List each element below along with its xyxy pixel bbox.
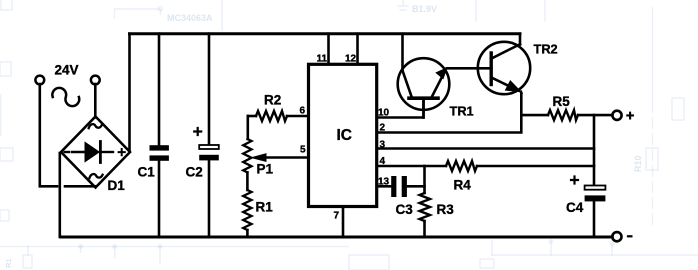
- svg-text:D1: D1: [108, 178, 126, 193]
- wire: pin 12 to rail: [356, 34, 359, 64]
- wire: pin 4 / R4 line: [377, 165, 446, 168]
- plus mark at bridge + corner: [119, 149, 125, 155]
- potentiometer P1: [243, 116, 308, 172]
- svg-text:B1.9V: B1.9V: [412, 4, 437, 14]
- bridge rectifier D1 outline: [61, 117, 130, 188]
- wire: pin 10 to TR1 base: [377, 100, 424, 118]
- wire: pin 13 to C3: [377, 185, 391, 188]
- wire: bottom 0V rail: [61, 236, 612, 239]
- svg-text:P1: P1: [257, 162, 274, 177]
- svg-text:C2: C2: [186, 165, 203, 180]
- tilde at bridge top AC corner: [89, 124, 102, 128]
- svg-text:7: 7: [334, 211, 340, 222]
- wire: output node down to C4: [593, 115, 596, 185]
- resistor R3: [420, 193, 431, 237]
- svg-text:C3: C3: [396, 202, 414, 217]
- capacitor C2 (polarized): [194, 34, 219, 237]
- plus mark at output: [627, 113, 633, 119]
- svg-text:6: 6: [300, 106, 306, 117]
- svg-text:10: 10: [378, 108, 390, 119]
- wire: top +V rail: [130, 32, 521, 35]
- svg-text:IC: IC: [337, 127, 353, 144]
- transistor TR2: [478, 34, 530, 94]
- svg-text:12: 12: [345, 54, 357, 65]
- wire: continuation of AC lead after crossing: [65, 185, 95, 188]
- svg-text:3: 3: [380, 140, 386, 151]
- svg-text:MC34063A: MC34063A: [167, 13, 213, 23]
- wire: bridge + output to top rail: [128, 34, 131, 150]
- svg-text:13: 13: [378, 177, 390, 188]
- svg-text:5: 5: [300, 145, 306, 156]
- wire: pin 11 to rail: [327, 34, 330, 64]
- wire: TR1 emitter to TR2 base: [447, 67, 490, 70]
- svg-text:C1: C1: [138, 165, 156, 180]
- wire: pin 7 to bottom rail: [342, 207, 345, 238]
- capacitor C3: [391, 176, 424, 197]
- op-amp/regulator IC box: [309, 64, 377, 206]
- svg-text:R1: R1: [4, 258, 13, 268]
- svg-text:4: 4: [380, 156, 386, 167]
- wire: left AC terminal lead (crosses - wire with break, to bridge bottom corner): [40, 84, 57, 186]
- tilde at bridge bottom AC corner: [89, 174, 102, 178]
- resistor R4: [446, 161, 477, 171]
- svg-text:11: 11: [317, 54, 328, 65]
- wire: R4 to output node: [477, 165, 594, 168]
- node: 24V AC terminal right: [91, 76, 100, 85]
- capacitor C1: [150, 34, 169, 237]
- resistor R1: [243, 172, 251, 237]
- wire: bridge - output to bottom rail: [58, 153, 61, 237]
- resistor R5: [521, 110, 612, 120]
- svg-text:R4: R4: [454, 178, 472, 193]
- minus mark at output: [628, 235, 631, 237]
- svg-text:R2: R2: [264, 93, 281, 108]
- node: - output terminal: [612, 232, 621, 241]
- svg-text:R10: R10: [633, 155, 643, 172]
- svg-text:R5: R5: [553, 94, 571, 109]
- wire: pin 2 to TR2 emitter node: [377, 93, 521, 133]
- wire: right AC terminal lead: [94, 84, 97, 118]
- node: + output terminal: [612, 111, 621, 120]
- svg-text:TR2: TR2: [534, 42, 558, 57]
- diode inside D1: [65, 142, 113, 163]
- capacitor C4 (polarized): [571, 177, 605, 238]
- wire: R4 tap down to C3/R3 node: [423, 166, 426, 193]
- svg-text:TR1: TR1: [450, 104, 474, 119]
- transistor TR1: [398, 34, 450, 118]
- resistor R2: [248, 111, 308, 121]
- svg-text:24V: 24V: [55, 63, 79, 78]
- AC sine symbol: [52, 88, 79, 106]
- svg-text:2: 2: [380, 123, 386, 134]
- svg-text:R1: R1: [256, 200, 274, 215]
- svg-text:R3: R3: [437, 202, 455, 217]
- svg-text:C4: C4: [566, 200, 584, 215]
- node: 24V AC terminal left: [35, 76, 44, 85]
- wire: pin 3 to output node: [377, 147, 594, 150]
